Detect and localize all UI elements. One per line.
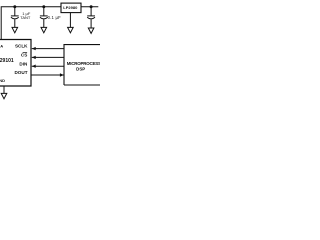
capacitor C3 [87, 7, 95, 28]
svg-text:ND: ND [0, 78, 5, 83]
ground under C1 [12, 27, 18, 32]
arrowhead DOUT into microprocessor [60, 73, 64, 76]
svg-text:DOUT: DOUT [14, 70, 27, 75]
wire VDD top rail [1, 7, 61, 40]
wire DIN [32, 65, 64, 67]
wire DOUT [31, 74, 64, 76]
arrowhead into DIN pin [32, 65, 36, 68]
svg-text:A: A [0, 44, 3, 49]
svg-text:SCLK: SCLK [15, 44, 28, 49]
arrowhead into CS pin [32, 56, 36, 59]
wire LP2980 output [81, 6, 98, 8]
svg-text:MICROPROCESSOR: MICROPROCESSOR [67, 61, 100, 66]
node junction dot at C3 tap [90, 5, 93, 8]
capacitor C2 0.1uF [40, 7, 48, 28]
wire SCLK [32, 48, 64, 50]
pin CS overline [23, 52, 28, 54]
svg-text:DSP: DSP [76, 67, 85, 72]
microprocessor U3 box (cut at right edge) [64, 45, 101, 85]
IC U1 codec box (cut at left edge) [0, 40, 31, 87]
svg-text:LP2980: LP2980 [63, 5, 78, 10]
wire CS [32, 56, 64, 58]
ground under C2 [41, 27, 47, 32]
ground under C3 [88, 28, 94, 33]
svg-text:129101: 129101 [0, 58, 14, 64]
ground under LP2980 [68, 27, 74, 32]
wire U1 ground pin [3, 86, 5, 93]
wire LP2980 ground pin [69, 13, 71, 28]
svg-text:CS: CS [21, 53, 27, 58]
arrowhead into SCLK pin [32, 47, 36, 50]
capacitor C1 1uF TANT [11, 7, 19, 28]
regulator U2 LP2980 box [61, 3, 81, 13]
ground under U1 (cut at bottom) [1, 93, 7, 98]
svg-text:DIN: DIN [19, 61, 28, 66]
node junction dot at C2 tap [42, 5, 45, 8]
svg-text:0.1 µF: 0.1 µF [48, 15, 61, 20]
svg-text:TANT: TANT [20, 15, 31, 20]
node junction dot at C1 tap [13, 5, 16, 8]
